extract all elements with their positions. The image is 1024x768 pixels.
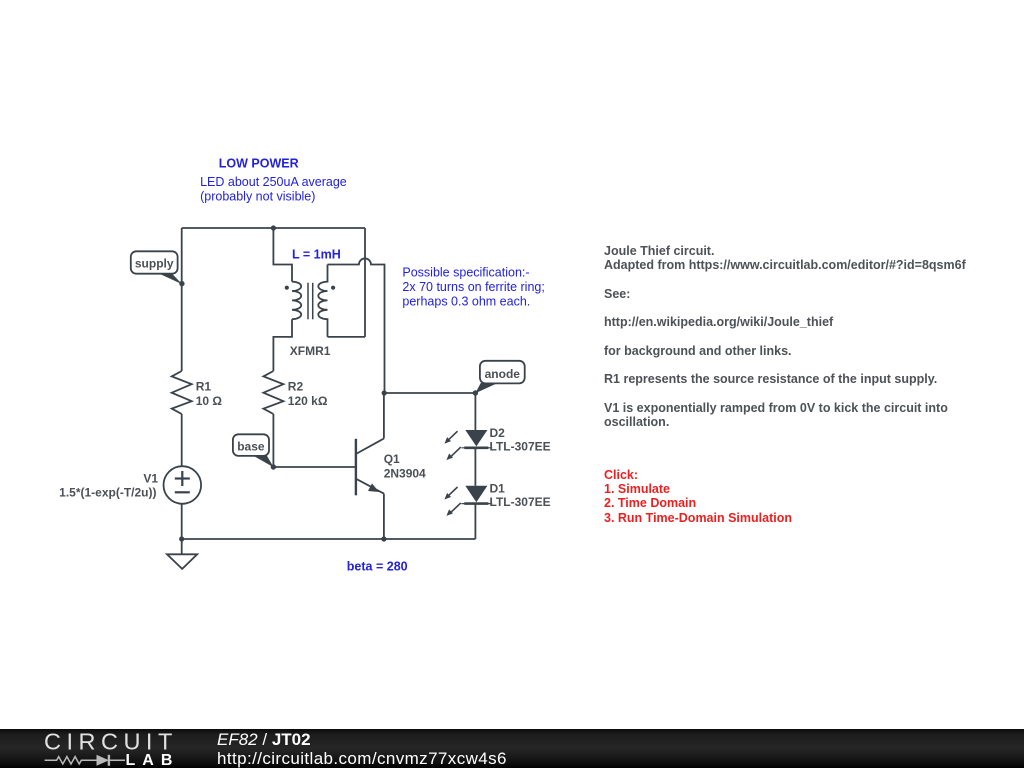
wire primary bottom jog: [273, 319, 292, 371]
svg-text:XFMR1: XFMR1: [290, 344, 331, 358]
wire anode down to D2: [474, 393, 476, 430]
wire secondary bottom: [328, 336, 366, 338]
wire top rail: [182, 227, 365, 229]
svg-text:base: base: [237, 440, 265, 454]
svg-text:Possible specification:-: Possible specification:-: [402, 266, 529, 280]
wire R2 to base node: [272, 414, 274, 467]
annotation LOW POWER: [200, 157, 545, 574]
svg-text:2N3904: 2N3904: [384, 467, 426, 481]
svg-text:supply: supply: [135, 257, 174, 271]
LED D1: [444, 486, 492, 516]
transistor Q1: [356, 439, 384, 496]
wire collector node to anode: [385, 392, 476, 394]
wire D1 to bottom rail: [474, 504, 476, 539]
svg-text:LAB: LAB: [126, 752, 180, 768]
wire emitter down: [383, 494, 385, 539]
ground: [167, 554, 197, 569]
CircuitLab logo: [0, 729, 220, 768]
svg-text:V1: V1: [143, 472, 158, 486]
transformer XFMR1: [292, 265, 328, 337]
wire D2 to D1: [474, 448, 476, 486]
node label anode: [475, 361, 524, 394]
voltage source V1: [164, 466, 202, 504]
svg-text:R1: R1: [196, 380, 212, 394]
footer bar: [0, 729, 1024, 768]
wire V1 to ground: [181, 504, 183, 555]
wire secondary top with hop to collector node: [328, 258, 385, 393]
node label base: [233, 434, 274, 467]
svg-text:(probably not visible): (probably not visible): [200, 189, 315, 203]
red click instructions: [604, 468, 792, 526]
svg-text:D1: D1: [490, 482, 506, 496]
wire bottom rail: [182, 538, 476, 540]
svg-text:Q1: Q1: [384, 452, 400, 466]
svg-text:CIRCUIT: CIRCUIT: [44, 729, 178, 755]
svg-text:1.5*(1-exp(-T/2u)): 1.5*(1-exp(-T/2u)): [59, 485, 156, 499]
svg-text:120 kΩ: 120 kΩ: [288, 394, 328, 408]
svg-text:10 Ω: 10 Ω: [196, 394, 223, 408]
svg-text:L = 1mH: L = 1mH: [292, 248, 341, 262]
wire right drop from top rail: [364, 228, 366, 337]
junction dot top rail: [271, 225, 276, 230]
svg-text:D2: D2: [490, 426, 506, 440]
node label supply: [131, 251, 182, 284]
svg-text:LED about 250uA average: LED about 250uA average: [200, 175, 347, 189]
wire base to Q1: [273, 466, 356, 468]
wire left rail to R1: [181, 228, 183, 371]
svg-text:LOW POWER: LOW POWER: [219, 157, 299, 171]
junction dot ground node: [179, 536, 184, 541]
resistor R2: [263, 371, 283, 414]
svg-text:perhaps 0.3 ohm each.: perhaps 0.3 ohm each.: [402, 294, 530, 308]
svg-text:2x 70 turns on ferrite ring;: 2x 70 turns on ferrite ring;: [402, 280, 544, 294]
svg-text:beta = 280: beta = 280: [347, 559, 408, 573]
resistor R1: [172, 371, 192, 414]
junction dot emitter bottom node: [381, 536, 386, 541]
junction dot supply node: [179, 281, 184, 286]
svg-text:R2: R2: [288, 380, 304, 394]
svg-text:LTL-307EE: LTL-307EE: [490, 495, 551, 509]
junction dot base node: [271, 464, 276, 469]
junction dot collector node: [382, 390, 387, 395]
wire R1 to V1: [181, 414, 183, 466]
svg-text:LTL-307EE: LTL-307EE: [490, 439, 551, 453]
wire primary top jog: [273, 228, 292, 282]
wire collector up: [383, 393, 385, 439]
svg-text:anode: anode: [485, 367, 521, 381]
right gray text block: [604, 244, 966, 430]
junction dot anode node: [473, 390, 478, 395]
LED D2: [444, 430, 492, 460]
